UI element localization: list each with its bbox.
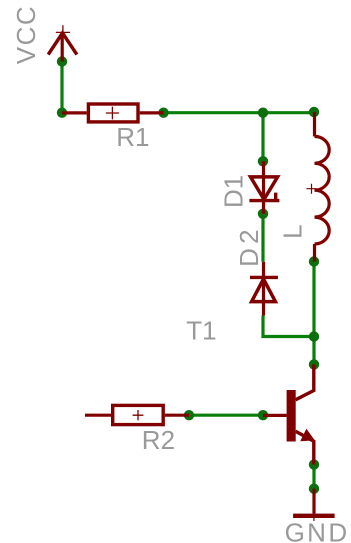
diode D2 <box>250 262 278 316</box>
VCC supply symbol <box>48 25 77 61</box>
junction dot collector node <box>309 331 319 341</box>
inductor L <box>307 112 330 262</box>
transistor T1 <box>263 364 315 464</box>
junction dot collector pin <box>309 359 319 369</box>
svg-text:GND: GND <box>285 518 348 543</box>
junction dot rail left corner <box>57 108 67 118</box>
junction dot below VCC <box>57 56 67 66</box>
ground symbol <box>293 514 335 521</box>
svg-text:R2: R2 <box>142 425 175 455</box>
wire D1 to D2 <box>261 214 264 262</box>
wire rail to D1 <box>261 113 264 162</box>
junction dot emitter <box>309 459 319 469</box>
junction dot R1 right <box>158 108 168 118</box>
wire D2 return to collector node <box>263 316 314 337</box>
zener diode D1 <box>249 161 279 214</box>
wire R2 to base <box>189 414 263 417</box>
wire VCC to rail <box>60 62 63 113</box>
junction dot L bottom <box>309 256 319 266</box>
resistor R2 <box>85 405 189 424</box>
junction dot D1 anode <box>258 156 268 166</box>
junction dot above GND <box>309 484 319 494</box>
junction dot rail / D1 branch <box>258 108 268 118</box>
wire to GND <box>312 489 315 514</box>
resistor R1 <box>62 104 164 122</box>
junction dot R2 right <box>184 410 194 420</box>
svg-text:L: L <box>277 224 307 238</box>
svg-text:R1: R1 <box>116 122 149 152</box>
wire L to collector <box>312 262 315 365</box>
wire top rail <box>164 111 315 114</box>
svg-text:D1: D1 <box>219 175 249 208</box>
svg-text:T1: T1 <box>186 316 216 346</box>
svg-text:D2: D2 <box>234 229 264 267</box>
junction dot base <box>258 410 268 420</box>
svg-text:VCC: VCC <box>11 6 41 64</box>
wire emitter segment <box>312 465 315 489</box>
junction dot D1 cathode <box>258 209 268 219</box>
junction dot rail right corner <box>309 107 319 117</box>
